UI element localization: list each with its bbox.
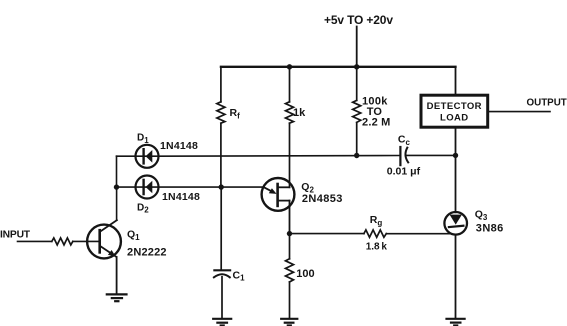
wire D2 to Q2 emitter xyxy=(159,186,264,188)
capacitor C1 xyxy=(214,269,230,271)
wire 1k to Q2 B2 xyxy=(289,123,291,187)
capacitor Cc xyxy=(399,147,401,165)
wire Rg to Q3 gate xyxy=(386,233,451,235)
wire D1-D2 left vertical xyxy=(116,156,118,187)
svg-text:LOAD: LOAD xyxy=(440,112,469,123)
svg-text:2N2222: 2N2222 xyxy=(127,247,167,259)
wire box bottom xyxy=(455,129,457,156)
wire 100 to ground xyxy=(289,282,291,318)
wire Rf junction to C1 xyxy=(220,187,222,269)
wire junction to Rg xyxy=(290,233,364,235)
node 100k/Cc row junction xyxy=(354,153,359,158)
svg-text:0.01 μf: 0.01 μf xyxy=(387,165,421,177)
svg-text:C1: C1 xyxy=(233,269,246,282)
resistor 100k-2.2M xyxy=(353,100,361,122)
svg-text:100: 100 xyxy=(296,268,314,280)
wire Q1 collector up xyxy=(116,187,118,220)
wire +5v feed xyxy=(356,27,358,67)
svg-text:1N4148: 1N4148 xyxy=(162,191,200,203)
ground C1 xyxy=(213,318,231,320)
wire Q2 B1 down xyxy=(289,201,291,234)
wire Rf top xyxy=(220,67,222,102)
wire detector to Q3 xyxy=(455,155,457,212)
svg-text:1N4148: 1N4148 xyxy=(160,140,198,152)
node rail/100k junction xyxy=(354,64,359,69)
transistor Q3 3N86 xyxy=(444,212,467,235)
ground 100 xyxy=(281,318,297,320)
wire Q1 emitter down xyxy=(116,257,118,293)
svg-text:2N4853: 2N4853 xyxy=(302,193,343,205)
wire D2 left stub xyxy=(117,186,136,188)
wire rail to detector box xyxy=(455,67,457,94)
ground Q3 xyxy=(447,318,465,320)
node rail/1k junction xyxy=(287,64,292,69)
wire junction to 100 resistor xyxy=(289,234,291,259)
diode D2 1N4148 xyxy=(136,176,159,199)
svg-text:1.8k: 1.8k xyxy=(366,241,388,252)
wire Q3 to ground xyxy=(455,235,457,319)
transistor Q1 2N2222 xyxy=(87,225,121,259)
resistor Rf xyxy=(217,102,225,123)
wire 100k top xyxy=(356,67,358,101)
svg-text:Rf: Rf xyxy=(230,107,241,121)
wire box to output xyxy=(489,111,550,113)
wire 1k top xyxy=(289,67,291,102)
svg-text:3N86: 3N86 xyxy=(476,223,504,235)
wire D1 row (D1 cathode to Cc) xyxy=(159,155,400,158)
svg-text:+5v TO +20v: +5v TO +20v xyxy=(324,13,393,27)
diode D1 1N4148 xyxy=(136,145,159,168)
wire Cc to Q3 line xyxy=(406,154,456,156)
wire Rf bottom xyxy=(220,123,222,187)
resistor 1k xyxy=(286,102,294,123)
svg-text:Rg: Rg xyxy=(370,214,383,227)
ground Q1 xyxy=(107,293,127,295)
svg-text:Q3: Q3 xyxy=(475,209,488,222)
svg-text:D1: D1 xyxy=(137,133,149,145)
wire input to Q1 base xyxy=(73,240,99,242)
svg-text:D2: D2 xyxy=(137,202,149,214)
node Cc/Q3 junction xyxy=(453,153,458,158)
svg-text:1k: 1k xyxy=(293,107,306,119)
transistor Q2 2N4853 xyxy=(262,178,295,211)
wire D1 left stub xyxy=(117,155,136,157)
svg-text:INPUT: INPUT xyxy=(0,229,31,240)
svg-text:Q1: Q1 xyxy=(127,229,140,242)
power rail +V xyxy=(221,66,456,68)
svg-text:2.2 M: 2.2 M xyxy=(362,117,391,129)
svg-text:OUTPUT: OUTPUT xyxy=(527,97,567,108)
detector load box xyxy=(421,95,488,127)
wire input lead xyxy=(18,240,52,242)
wire C1 to ground xyxy=(221,277,223,318)
resistor Rg 1.8k xyxy=(364,230,386,237)
wire 100k bottom xyxy=(356,122,358,155)
node Q2-B1/Rg/100 junction xyxy=(287,231,292,236)
resistor input (unlabeled) xyxy=(52,238,73,245)
node Rf/D2 junction xyxy=(219,184,224,189)
svg-text:Cc: Cc xyxy=(398,134,411,147)
node D2/Q1 collector junction xyxy=(114,184,119,189)
resistor 100 xyxy=(286,259,294,282)
svg-text:DETECTOR: DETECTOR xyxy=(427,101,482,112)
